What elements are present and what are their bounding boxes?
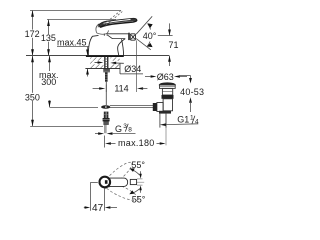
faucet base on countertop [86,55,124,57]
reference line top of lowered handle (135) [47,19,116,21]
lever housing (spigot) [157,103,163,112]
svg-text:172: 172 [25,29,40,39]
dimension 47 [84,183,117,214]
dimension max.300 (vertical rod length) [39,56,59,108]
svg-text:350: 350 [25,93,40,103]
dimension 71 (spout height) [158,23,179,66]
svg-text:114: 114 [114,84,128,94]
dimension max.45 (countertop thickness) [57,37,89,76]
tailpipe [159,114,161,128]
neck joint under ball [103,34,105,36]
faucet body outline [88,34,128,56]
55° top arc and text [130,160,146,175]
svg-text:40°: 40° [143,31,157,41]
horizontal pop-up rod reference line [50,107,99,109]
handle ball (plan, thick ring) [100,177,111,188]
horizontal pop-up rod (double line) [110,105,157,107]
svg-text:max.45: max.45 [57,37,87,47]
svg-text:55°: 55° [131,160,145,170]
dimension 114 (projection) [93,41,148,94]
dimension 40-53 (mounting depth) [179,76,204,113]
dashed swivel blade lower [102,179,141,204]
handle lever (plan) [107,178,128,186]
dimension Ø34 (mounting hole) [95,61,144,74]
lever underside shading [100,20,136,27]
svg-text:55°: 55° [132,194,146,204]
countertop hatched section [85,57,120,68]
spout center line (plan) [137,181,144,183]
body [163,99,172,111]
dashed swivel blade upper [100,159,135,191]
dimension 350 (overall height) [25,56,40,127]
svg-text:8: 8 [128,126,132,133]
55° bottom arc and text [129,189,145,205]
spout joint ring [128,33,130,40]
aerator (mousseur) with X [130,34,135,40]
dimension 135 [41,20,56,56]
cartridge mark [105,180,108,184]
rod coupling at faucet [101,105,110,109]
countertop surface line [26,55,169,57]
washer (dark band) [162,95,174,99]
neck [162,88,172,95]
reference line top of raised handle (172) [30,10,121,12]
40° swivel fan lines and arc [136,16,152,50]
flange [160,85,176,88]
svg-text:71: 71 [168,40,178,50]
dimension 172 [24,10,40,56]
dimension G 3/8 (hose thread) [95,123,136,135]
bottom band [159,111,171,114]
svg-text:40-53: 40-53 [180,87,204,97]
svg-text:300: 300 [41,77,56,87]
lever top highlight streaks [104,20,131,24]
dashed raised handle (40 deg position) [104,10,123,25]
rod coupling at waste [153,103,157,111]
aerator width arrows [137,171,143,193]
threaded shank through countertop [103,57,110,82]
plug dome [159,82,176,85]
svg-text:4: 4 [195,118,199,125]
svg-text:G: G [115,124,122,134]
svg-text:Ø63: Ø63 [157,72,174,82]
aerator (plan) [130,179,136,184]
svg-text:G1: G1 [177,115,189,125]
label G 1 1/4 (waste thread) [160,115,199,127]
350 bottom reference line [30,126,103,128]
svg-text:47: 47 [92,203,104,214]
dimension max.180 (horizontal rod) [105,114,167,149]
svg-text:135: 135 [41,33,56,43]
pull rod / hose line below faucet [105,82,107,105]
pop-up waste assembly [153,82,176,127]
40° text [143,31,158,39]
handle ball (sketch arcs) [96,24,108,34]
G 3/8 hose connector [103,112,110,134]
dimension Ø63 (waste flange) [145,72,187,82]
svg-text:max.180: max.180 [118,138,155,148]
handle lever (blade) [99,18,137,27]
svg-text:Ø34: Ø34 [124,64,141,74]
